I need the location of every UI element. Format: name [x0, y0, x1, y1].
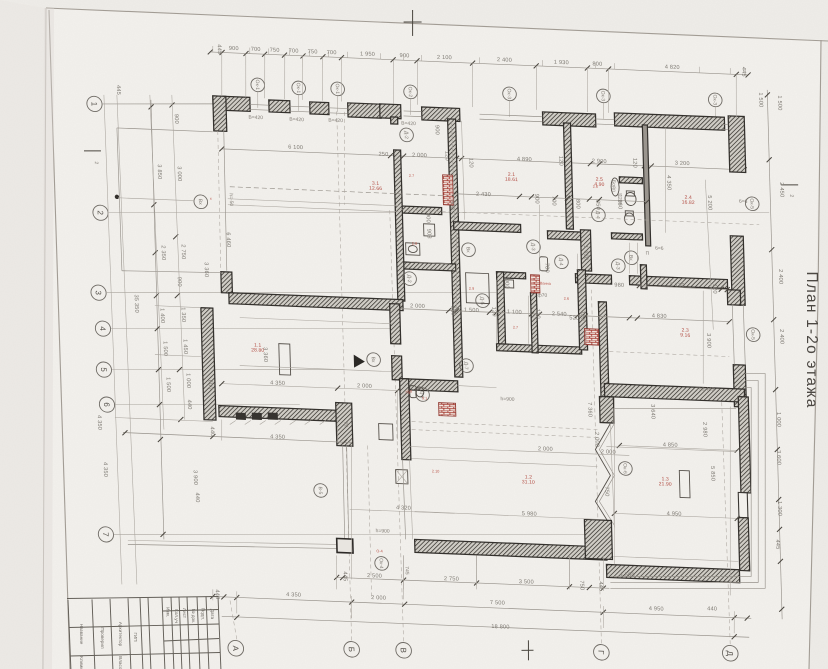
svg-text:Изм.: Изм.: [166, 607, 171, 617]
svg-text:445: 445: [115, 85, 121, 95]
garage bay face line: [610, 424, 614, 528]
stove square with cross: [396, 469, 408, 483]
svg-text:П: П: [645, 251, 649, 257]
svg-text:18 800: 18 800: [491, 624, 509, 631]
toilet fixture bath 1: [625, 192, 636, 205]
svg-text:1 500: 1 500: [162, 341, 168, 356]
garage cabinet rect: [679, 470, 690, 497]
svg-text:2 350: 2 350: [160, 245, 166, 260]
wall north corner horizontal: [213, 96, 250, 111]
svg-text:2: 2: [788, 194, 794, 197]
toilet fixture wc-a: [410, 386, 417, 398]
svg-text:440: 440: [194, 492, 200, 502]
svg-text:900: 900: [173, 114, 179, 124]
svg-text:28.80: 28.80: [251, 347, 264, 354]
svg-text:Д-3: Д-3: [614, 262, 620, 270]
axis circle 6: [99, 397, 115, 413]
svg-text:Д: Д: [725, 650, 734, 656]
svg-text:445: 445: [597, 581, 603, 591]
wall living room north: [229, 293, 403, 311]
washer box bath2: [424, 224, 435, 236]
svg-text:445: 445: [774, 539, 780, 549]
wall bottom extension left: [115, 418, 213, 422]
svg-text:7 360: 7 360: [586, 402, 592, 417]
svg-text:2 000: 2 000: [412, 152, 427, 159]
scanner margin left of paper edge: [0, 0, 46, 669]
terrace frame line 3: [604, 367, 771, 595]
wall vertical below w6: [563, 123, 573, 229]
svg-text:4 850: 4 850: [663, 442, 678, 449]
fireplace rect living room: [279, 344, 291, 375]
veranda dashed axis: [342, 112, 347, 205]
svg-text:Ок-1: Ок-1: [295, 83, 301, 94]
svg-text:Д-7: Д-7: [463, 362, 469, 370]
svg-text:1 500: 1 500: [776, 95, 782, 110]
window mark stems: [256, 92, 259, 108]
svg-text:Д-4: Д-4: [558, 258, 564, 266]
svg-text:120: 120: [579, 311, 585, 321]
svg-text:Ванна: Ванна: [540, 281, 552, 285]
svg-text:750: 750: [270, 48, 280, 54]
door circle d4b: [591, 208, 605, 222]
svg-text:1 630: 1 630: [582, 245, 588, 260]
axis circle 3: [91, 285, 107, 301]
wall corridor south east part: [629, 276, 727, 289]
svg-text:В=420: В=420: [401, 121, 416, 128]
svg-text:7 500: 7 500: [490, 600, 505, 607]
left chain line B ticks: [169, 102, 174, 107]
marker circle vk: [462, 243, 476, 257]
paper right edge line: [809, 40, 821, 669]
kitchen cupboard rect: [466, 273, 490, 304]
axis line 2: [107, 186, 770, 239]
svg-text:6=6: 6=6: [655, 246, 664, 252]
svg-text:2 000: 2 000: [357, 383, 372, 390]
svg-text:2 750: 2 750: [180, 244, 186, 259]
wall garage north: [604, 384, 744, 403]
paper scan noise overlay: [0, 0, 1, 1]
axis line 3: [106, 277, 500, 309]
svg-text:2 130: 2 130: [670, 282, 685, 289]
svg-text:1 400: 1 400: [159, 308, 165, 323]
wall garage west lower block: [584, 519, 612, 559]
boiler ellipse: [611, 178, 620, 196]
svg-text:Подп.: Подп.: [201, 608, 206, 620]
porch rail vertical: [342, 445, 345, 539]
dashed vertical porch to chain: [367, 445, 372, 599]
svg-text:750: 750: [308, 49, 318, 55]
door circle d6: [416, 387, 430, 401]
wall north corner pillar: [213, 96, 227, 132]
passage guide verticals x452-462: [452, 121, 455, 220]
wall wc2 south: [497, 344, 582, 354]
vent shaft 1: [443, 175, 454, 205]
svg-text:В-5: В-5: [317, 486, 323, 494]
drawing frame left line: [49, 10, 70, 669]
svg-text:35 350: 35 350: [133, 294, 140, 313]
vent shaft 3: [584, 329, 598, 346]
left chain tie lines: [155, 306, 201, 308]
axis extension V: [390, 208, 404, 642]
bottom chain row 0 (room widths): [337, 577, 610, 588]
svg-text:Ок-3: Ок-3: [506, 88, 512, 99]
window mark Ok-1: [251, 78, 265, 92]
right inner chain: [705, 180, 713, 330]
bottom chain row 1: [210, 596, 751, 618]
svg-text:4 350: 4 350: [96, 415, 102, 430]
veranda south edge lines: [228, 199, 399, 206]
washbasin wc-a sink: [406, 243, 420, 256]
wall corner south-east living: [336, 403, 353, 447]
door circle terrace: [194, 195, 208, 209]
svg-text:1 300: 1 300: [776, 501, 782, 516]
svg-text:520: 520: [569, 315, 579, 321]
axis line 1: [102, 99, 213, 108]
svg-text:Кол.уч: Кол.уч: [174, 609, 179, 623]
veranda west open edge: [217, 131, 222, 271]
axis circle 5: [96, 362, 112, 378]
svg-text:3 000: 3 000: [176, 166, 182, 181]
axis extension B: [337, 110, 352, 640]
garage inner face line: [613, 404, 736, 414]
svg-text:Бойл: Бойл: [610, 180, 617, 192]
window glazing lines north wall gaps: [250, 103, 269, 106]
paper top edge line: [46, 8, 828, 41]
bottom chain row 2 total: [222, 616, 749, 637]
svg-text:Б: Б: [347, 647, 356, 653]
svg-text:18.61: 18.61: [505, 177, 518, 184]
wall hall south 2: [547, 231, 589, 241]
axis extension A: [230, 599, 237, 639]
svg-text:900: 900: [503, 279, 509, 289]
svg-text:2 430: 2 430: [476, 192, 491, 199]
svg-text:9.1: 9.1: [422, 396, 427, 400]
svg-text:2 100: 2 100: [437, 55, 452, 62]
wall living room south: [219, 406, 338, 422]
door circle d3: [526, 240, 540, 254]
svg-text:В=420: В=420: [289, 117, 304, 124]
marker circle vk2: [624, 251, 638, 265]
toilet fixture bath 2: [624, 213, 634, 225]
svg-text:4 830: 4 830: [652, 313, 667, 320]
svg-text:1 100: 1 100: [507, 309, 522, 316]
axis line 7: [113, 515, 600, 554]
svg-text:5 200: 5 200: [706, 195, 712, 210]
inner top dimension chain: [222, 149, 744, 170]
garage bay zigzag: [593, 423, 613, 526]
svg-text:21.90: 21.90: [659, 481, 672, 488]
garage inner bottom face: [613, 556, 738, 561]
right chain line: [767, 90, 782, 619]
svg-text:3 500: 3 500: [519, 579, 534, 586]
wall wc2 mid: [530, 293, 538, 353]
svg-text:6 460: 6 460: [225, 232, 231, 247]
living room witness verticals: [221, 420, 222, 441]
svg-text:120: 120: [534, 309, 540, 319]
svg-text:20: 20: [343, 422, 349, 428]
svg-text:745: 745: [403, 566, 409, 575]
left chain extra line: [104, 95, 122, 584]
line dot to entry circle: [118, 198, 194, 201]
svg-text:1 930: 1 930: [554, 60, 569, 67]
svg-text:2 000: 2 000: [593, 432, 599, 447]
svg-text:3 850: 3 850: [156, 164, 162, 179]
wall east segment 1: [730, 236, 745, 306]
wall dining west: [400, 379, 411, 460]
svg-text:4 350: 4 350: [270, 434, 285, 441]
chain row corridor 2130: [639, 286, 727, 290]
wall east segment 2: [733, 365, 746, 407]
svg-text:445: 445: [216, 44, 222, 54]
svg-text:700: 700: [289, 48, 299, 54]
svg-text:Вх: Вх: [197, 199, 203, 206]
svg-text:В=420: В=420: [248, 115, 263, 122]
svg-text:1 350: 1 350: [180, 307, 186, 322]
section mark 1 top: [412, 10, 413, 36]
svg-text:4 320: 4 320: [396, 505, 411, 512]
svg-text:4 350: 4 350: [286, 592, 301, 599]
svg-text:2.8: 2.8: [412, 242, 417, 246]
axis circle B bottom: [344, 641, 360, 657]
axis 4 dashed extension right: [609, 352, 729, 357]
window mark Ok-3: [503, 87, 517, 101]
terrace frame line 2: [605, 374, 764, 588]
svg-text:Д-3: Д-3: [530, 243, 536, 251]
title block frame: [67, 596, 221, 669]
svg-text:Власов: Власов: [118, 656, 123, 669]
svg-text:Ок-5: Ок-5: [748, 198, 754, 209]
axis circle 4: [95, 321, 111, 337]
wall hall south 1: [454, 222, 521, 233]
door circle d5: [476, 294, 490, 308]
svg-text:1 000: 1 000: [185, 373, 191, 388]
svg-text:Ок-6: Ок-6: [621, 463, 627, 474]
svg-text:2 400: 2 400: [778, 329, 784, 344]
svg-text:440: 440: [186, 399, 192, 409]
svg-text:3 900: 3 900: [705, 333, 711, 348]
svg-text:900: 900: [433, 125, 439, 135]
svg-text:4 820: 4 820: [665, 64, 680, 71]
dims under living room: [222, 384, 398, 391]
svg-text:900: 900: [533, 194, 539, 204]
svg-text:900: 900: [424, 213, 430, 223]
svg-text:3 900: 3 900: [192, 470, 198, 485]
svg-text:440: 440: [209, 426, 215, 436]
door circle d7: [459, 359, 473, 373]
svg-text:1 500: 1 500: [464, 307, 479, 314]
axis line 6: [115, 397, 300, 412]
svg-text:250: 250: [379, 152, 389, 158]
fixture box dining nw corner: [379, 424, 393, 441]
wall north w5: [422, 107, 460, 122]
wall vertical x581: [580, 230, 591, 271]
svg-text:2 000: 2 000: [371, 595, 386, 602]
wall west living room: [201, 308, 216, 420]
svg-text:Ок-1: Ок-1: [334, 83, 340, 94]
wall north w6: [542, 112, 595, 127]
vent shaft 2: [439, 403, 456, 417]
svg-text:Дата: Дата: [210, 609, 215, 620]
wall living east lower: [392, 356, 403, 380]
guide verticals centre: [454, 233, 458, 309]
open terrace south edge: [122, 269, 221, 275]
svg-text:900: 900: [176, 277, 182, 287]
wall bath top: [611, 233, 642, 240]
window mark Ok-1b: [292, 81, 306, 95]
wall garage east upper: [738, 397, 751, 493]
wall living east upper: [390, 304, 401, 344]
svg-text:4 950: 4 950: [667, 511, 682, 518]
svg-text:x: x: [210, 197, 212, 201]
witness lines top: [212, 46, 214, 52]
door circle hall2: [400, 128, 414, 142]
wall dining north: [400, 379, 458, 392]
svg-text:2.7: 2.7: [409, 174, 414, 178]
svg-text:4 350: 4 350: [665, 175, 671, 190]
svg-text:120: 120: [631, 158, 637, 168]
window sill w2: [310, 102, 329, 115]
svg-text:Лист: Лист: [182, 608, 187, 619]
svg-text:h=900: h=900: [376, 528, 390, 535]
window sill w1: [269, 100, 290, 113]
window circle garage: [618, 461, 632, 475]
svg-text:2 450: 2 450: [778, 182, 784, 197]
svg-text:700: 700: [327, 50, 337, 56]
axis 2 dashed across centre: [400, 210, 760, 225]
garage interior dims: [619, 445, 737, 450]
left chain dot node: [115, 195, 120, 200]
window mark Ok-1c: [331, 82, 345, 96]
svg-text:6=6: 6=6: [739, 199, 748, 205]
svg-text:О-4: О-4: [376, 549, 382, 553]
svg-text:2.7: 2.7: [513, 326, 518, 330]
window mark Ok-2: [404, 85, 418, 99]
svg-text:440: 440: [707, 606, 717, 612]
veranda roof dashed line: [230, 187, 448, 196]
svg-text:2 400: 2 400: [777, 269, 783, 284]
svg-text:2 400: 2 400: [497, 57, 512, 64]
svg-text:120: 120: [557, 156, 563, 166]
garage east window: [738, 492, 748, 517]
washbasin wc2: [505, 280, 514, 288]
axis circle V bottom: [396, 642, 412, 658]
section mark 2 left: [84, 150, 101, 151]
svg-text:4 500: 4 500: [620, 572, 635, 579]
svg-text:Проверил: Проверил: [100, 627, 105, 648]
svg-text:700: 700: [251, 47, 261, 53]
top dimension chain: [210, 52, 748, 75]
window circle right1: [745, 197, 759, 211]
svg-text:2.6: 2.6: [564, 297, 569, 301]
svg-text:2 980: 2 980: [701, 422, 707, 437]
svg-text:850: 850: [594, 200, 600, 210]
wall north pier w4 notch: [391, 117, 398, 124]
bottom chain witness: [236, 591, 237, 613]
svg-text:31.10: 31.10: [522, 479, 535, 486]
axis circle 7: [98, 527, 114, 543]
marker circle living: [367, 353, 381, 367]
svg-text:120: 120: [490, 307, 496, 317]
left edge shadow band: [43, 8, 54, 669]
svg-text:9.16: 9.16: [680, 332, 690, 338]
svg-text:600: 600: [207, 380, 213, 390]
wall north-east corner pillar: [728, 116, 746, 173]
wall north pier w4: [380, 104, 401, 119]
dashed lines dining: [412, 422, 598, 430]
svg-text:1 450: 1 450: [182, 339, 188, 354]
hatch marks terrace: [230, 420, 236, 424]
open terrace north edge: [117, 128, 213, 132]
axis circle 2: [93, 205, 109, 221]
chain row y197 (bath widths): [455, 194, 648, 202]
svg-text:В=420: В=420: [328, 118, 343, 125]
svg-text:900: 900: [448, 200, 454, 210]
wall north w7: [614, 113, 724, 130]
section mark 2 right: [781, 184, 798, 185]
axis circle 1: [87, 96, 103, 112]
svg-text:Ок-5: Ок-5: [749, 329, 755, 340]
window circle right2: [746, 328, 760, 342]
svg-text:445: 445: [341, 571, 347, 581]
scanner margin right of paper edge: [809, 40, 828, 669]
svg-text:Ок-3: Ок-3: [599, 91, 605, 102]
svg-text:Ок-2: Ок-2: [407, 86, 413, 97]
wall wc west: [394, 150, 405, 301]
wall bath stub: [619, 177, 642, 184]
marker circle v5: [314, 483, 328, 497]
svg-text:750 445: 750 445: [696, 386, 714, 393]
svg-text:План 1-2о этажа: План 1-2о этажа: [803, 271, 820, 408]
svg-text:h=900: h=900: [500, 396, 514, 403]
axis circle A bottom: [228, 640, 244, 656]
svg-text:7.1: 7.1: [405, 390, 410, 394]
svg-text:2 750: 2 750: [444, 576, 459, 583]
svg-text:16.82: 16.82: [682, 200, 695, 207]
title block texts: [79, 607, 215, 669]
window mark Ok-3c: [708, 93, 722, 107]
left chain line outer: [172, 95, 185, 420]
svg-text:Ок-4: Ок-4: [378, 558, 384, 569]
open terrace west edge: [117, 128, 122, 271]
porch post: [337, 538, 353, 553]
svg-text:12.66: 12.66: [369, 186, 382, 193]
wall corridor south west part: [575, 274, 611, 284]
svg-text:ГИП: ГИП: [133, 632, 138, 641]
scanner margin above paper edge: [0, 0, 828, 40]
witness lines from top chain to walls: [221, 52, 223, 96]
wall vertical below w5: [448, 119, 463, 377]
svg-text:120: 120: [467, 158, 473, 168]
svg-text:3 360: 3 360: [203, 262, 209, 277]
svg-text:2 540: 2 540: [552, 311, 567, 318]
entrance arrow: [354, 355, 365, 368]
svg-text:6 100: 6 100: [288, 145, 303, 152]
window glazing lines east wall gap: [732, 305, 734, 365]
wall stub through corridor: [640, 265, 647, 289]
door circle d3b: [611, 259, 625, 273]
wall garage east lower: [738, 517, 749, 570]
svg-text:Ок-1: Ок-1: [254, 79, 260, 90]
svg-text:120: 120: [449, 306, 455, 316]
svg-text:5 850: 5 850: [709, 466, 715, 481]
svg-text:3 200: 3 200: [675, 161, 690, 168]
svg-text:Климко: Климко: [79, 656, 84, 669]
middle dimension chain row: [400, 308, 730, 321]
window mark Ok-3b: [596, 89, 610, 103]
svg-text:2 900: 2 900: [592, 158, 607, 165]
svg-text:1 500: 1 500: [757, 92, 763, 107]
svg-text:800: 800: [574, 199, 580, 209]
